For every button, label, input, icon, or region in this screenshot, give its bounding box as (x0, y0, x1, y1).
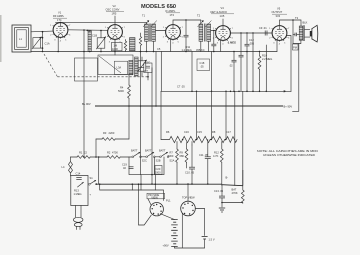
svg-text:V4: V4 (221, 6, 225, 10)
resistor R9 680 (180, 143, 188, 169)
svg-text:C10 .05: C10 .05 (185, 171, 195, 175)
electrolytic C20 2000 (155, 166, 162, 175)
svg-text:V3: V3 (171, 5, 175, 9)
loop antenna L1 (12, 25, 31, 52)
svg-text:V2: V2 (113, 4, 117, 8)
svg-text:3300: 3300 (168, 154, 174, 158)
svg-text:R13: R13 (74, 189, 79, 193)
variable capacitor C1C (137, 57, 150, 76)
vertical from detector to screen bus (191, 52, 193, 92)
AVC capacitor at V4 grid (211, 30, 216, 52)
svg-text:B+ 90V: B+ 90V (82, 102, 91, 106)
wire loop to V1 grid (31, 30, 53, 33)
IF transformer T2 (197, 14, 211, 52)
svg-text:S2B: S2B (156, 158, 161, 162)
svg-text:IF AMPL: IF AMPL (166, 9, 177, 13)
svg-text:C12: C12 (249, 38, 254, 42)
battery switch S2B (141, 148, 160, 162)
svg-text:C1B: C1B (92, 34, 97, 38)
tuning gang dashed link (44, 54, 148, 77)
V2 cathode lead into oscillator box (114, 39, 116, 55)
socket top view (181, 183, 196, 216)
screen feed vertical from T1 (155, 52, 157, 107)
svg-text:C18: C18 (200, 61, 205, 65)
svg-text:.05: .05 (200, 64, 204, 68)
tube V2 OSC CONV 1R5 (105, 4, 126, 44)
svg-text:RF AMPL: RF AMPL (53, 14, 65, 18)
V1 plate lead to B+ line (60, 21, 62, 23)
svg-text:BATT: BATT (159, 148, 166, 152)
chassis ground (219, 208, 225, 212)
tube V5 OUTPUT 3V4 (269, 7, 290, 46)
plug socket PL1 (150, 199, 171, 216)
svg-text:1 MEG: 1 MEG (74, 192, 82, 196)
svg-text:OUTPUT: OUTPUT (272, 10, 283, 14)
capacitor C10 .05 (185, 142, 195, 185)
svg-text:.005: .005 (249, 41, 255, 45)
V4 cathode lead (220, 40, 222, 51)
svg-text:R6: R6 (166, 130, 170, 134)
svg-text:1M: 1M (114, 43, 118, 47)
svg-text:S2C: S2C (142, 158, 147, 162)
svg-text:R2: R2 (107, 150, 111, 154)
resistor R12 4.7K (213, 142, 223, 186)
svg-text:1T4: 1T4 (170, 13, 175, 17)
svg-text:4700: 4700 (112, 150, 118, 154)
svg-text:C16: C16 (184, 130, 189, 134)
svg-text:C1C: C1C (145, 61, 150, 65)
svg-text:R9: R9 (180, 151, 184, 155)
oscillator shield box (left) (75, 58, 98, 81)
svg-text:1U5: 1U5 (220, 14, 225, 18)
variable capacitor C1A (32, 31, 50, 52)
line from detector bus to B minus end (242, 170, 244, 186)
svg-text:C19: C19 (122, 163, 127, 167)
svg-text:R3: R3 (103, 131, 107, 135)
svg-text:680: 680 (180, 154, 185, 158)
capacitor C8 .005 (239, 32, 244, 91)
resistor R2 (107, 150, 132, 158)
battery switch S2A (155, 148, 174, 162)
wire V4 plate to output grid (231, 32, 273, 34)
svg-text:V5: V5 (277, 7, 281, 11)
oscillator coil box L3 (98, 55, 133, 75)
capacitor C12 .005 (245, 32, 255, 91)
svg-text:4.7K: 4.7K (213, 154, 219, 158)
variable capacitor C1B (92, 30, 106, 52)
svg-text:BATT: BATT (145, 148, 152, 152)
tube V1 RF AMPL 1T4 (50, 11, 71, 43)
coupling capacitor C6 (184, 19, 189, 51)
svg-text:UNLESS OTHERWISE INDICATED: UNLESS OTHERWISE INDICATED (263, 153, 315, 157)
filament return link (129, 157, 164, 190)
vertical to screen bus left end (160, 52, 162, 92)
svg-text:B+ 90V: B+ 90V (284, 104, 293, 108)
svg-text:1.5 V: 1.5 V (209, 238, 215, 242)
svg-text:2000: 2000 (155, 171, 161, 175)
wire T2 secondary to V4 (211, 30, 216, 32)
oscillator feed vertical with resistor (139, 33, 141, 157)
svg-text:VIEW: VIEW (151, 196, 158, 200)
wire loop around socket to B minus (138, 183, 152, 225)
svg-text:C13 .05: C13 .05 (214, 189, 224, 193)
tone capacitor across primary (293, 20, 299, 44)
svg-text:S2A: S2A (169, 158, 174, 162)
battery switch S2C (131, 148, 147, 162)
volume control box (71, 172, 88, 206)
svg-text:C17: C17 (226, 130, 231, 134)
resistor R7 3300 (168, 142, 179, 185)
capacitor C11 .05 (199, 140, 211, 185)
IF transformer T1 (142, 14, 157, 52)
svg-text:100K: 100K (112, 47, 118, 51)
svg-text:C1A: C1A (45, 42, 50, 46)
svg-text:R1: R1 (79, 150, 83, 154)
wire bottom return bus (31, 51, 277, 53)
node dots on screen bus (191, 91, 267, 93)
svg-text:R4: R4 (120, 86, 124, 90)
oscillator padder (130, 38, 136, 51)
svg-text:C11 .05: C11 .05 (199, 153, 208, 157)
RF coil L2 (slug tuned) (86, 29, 91, 51)
capacitor C7 .02 (229, 52, 237, 92)
AVC line from C1A down to volume (83, 30, 85, 157)
svg-text:OSC CONV: OSC CONV (106, 8, 120, 12)
svg-text:2200: 2200 (109, 131, 115, 135)
electrolytic C19 40 (122, 163, 134, 171)
on-off switch S1 (88, 176, 97, 185)
A battery 1.5V (175, 209, 215, 249)
svg-text:R8: R8 (212, 130, 216, 134)
svg-text:BATT: BATT (131, 148, 138, 152)
V5 filament lead (276, 40, 278, 51)
svg-text:BLK: BLK (303, 21, 308, 25)
svg-text:5600: 5600 (118, 89, 124, 93)
B battery 90V (160, 214, 177, 248)
oscillator coil L3B (135, 57, 139, 76)
B+ feed line over RF section (56, 21, 147, 23)
svg-text:PM: PM (293, 46, 297, 50)
svg-text:R12: R12 (214, 151, 219, 155)
V5 plate to T3 primary (280, 20, 302, 26)
svg-text:.02: .02 (229, 64, 233, 68)
socket pin side view label (147, 193, 165, 204)
svg-text:BAT: BAT (232, 188, 237, 192)
svg-text:1T4: 1T4 (57, 18, 62, 22)
scan left edge artifact (0, 15, 2, 62)
svg-text:1 MEG: 1 MEG (228, 41, 236, 45)
node dots on return bus (42, 51, 248, 53)
B+ 90V bus (82, 44, 299, 112)
wire junction column (252, 33, 254, 91)
coupling capacitor C9 .01 (259, 26, 267, 36)
oscillator trimmer box (138, 63, 152, 80)
junction to switch S1 (98, 157, 100, 184)
svg-text:C5: C5 (157, 47, 161, 51)
filament string resistor chain (161, 130, 237, 143)
svg-text:R7: R7 (170, 151, 174, 155)
wire V1 plate to RF coil (68, 29, 108, 32)
resistor R10 2.2 MEG (258, 51, 272, 92)
note text (257, 149, 318, 157)
screen bus with arrow (161, 85, 291, 140)
tube V4 DET & AUDIO 1U5 (211, 6, 235, 45)
svg-text:C15: C15 (197, 130, 202, 134)
svg-text:C7 .05: C7 .05 (177, 85, 185, 89)
svg-text:+90V: +90V (163, 244, 169, 248)
svg-text:V1: V1 (58, 11, 62, 15)
svg-text:1.2 MEG: 1.2 MEG (182, 48, 192, 52)
svg-text:455 KC: 455 KC (196, 48, 205, 52)
speaker (305, 25, 318, 42)
svg-text:PL1: PL1 (166, 199, 171, 203)
resistor R1 (71, 150, 108, 158)
oscillator grid resistor (124, 40, 126, 52)
feed line down to filament chain (196, 91, 198, 139)
battery plug stem (73, 206, 83, 230)
V1 cathode lead (57, 37, 59, 51)
V5 screen lead down (287, 36, 291, 92)
tube V3 IF AMPL 1T4 (163, 5, 184, 44)
output transformer T3 (293, 16, 308, 44)
V3 cathode lead (170, 39, 172, 51)
long vertical from oscillator to B minus bus (151, 68, 153, 184)
svg-text:3V4: 3V4 (276, 14, 281, 18)
B minus bus (95, 175, 243, 185)
speaker field label box (293, 44, 299, 50)
V3 plate lead (173, 20, 201, 25)
capacitor C13 .05 (214, 185, 225, 207)
svg-text:2.2 MEG: 2.2 MEG (262, 57, 272, 61)
svg-text:C14: C14 (76, 172, 81, 176)
svg-text:B-: B- (226, 175, 229, 179)
svg-text:C9 .01: C9 .01 (259, 26, 267, 30)
dropping resistor R3 2200 (96, 131, 129, 157)
svg-text:C20: C20 (156, 167, 161, 171)
oscillator grid leak box 1M 100K (112, 42, 123, 51)
resistor R4 5600 (118, 75, 130, 140)
svg-text:TOP VIEW: TOP VIEW (182, 195, 195, 199)
wire T1 secondary to V3 grid (156, 30, 166, 32)
audio line from volume to plug (90, 183, 164, 200)
filament choke L4 (62, 157, 73, 176)
svg-text:56K: 56K (144, 71, 148, 73)
svg-text:L3A: L3A (117, 66, 122, 70)
svg-text:DET & AUDIO: DET & AUDIO (211, 10, 227, 14)
svg-text:470K: 470K (232, 191, 238, 195)
svg-text:S1: S1 (90, 176, 94, 180)
svg-text:1R5: 1R5 (112, 12, 117, 16)
resistor 470K to ground (222, 186, 244, 204)
